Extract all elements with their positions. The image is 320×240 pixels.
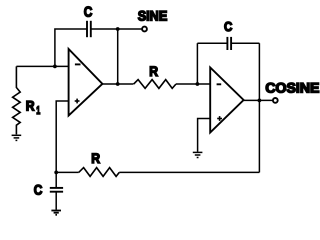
op-amp U2 — [210, 68, 243, 133]
wire U1 output junction up to SINE line — [117, 29, 119, 84]
label R1 — [26, 98, 41, 117]
wire U1 output — [102, 83, 134, 85]
wire U2 non-inverting input to ground — [198, 119, 211, 152]
wire bottom feedback right segment — [119, 171, 259, 173]
capacitor C2 — [227, 37, 231, 50]
wire U1 non-inverting input down to bottom node — [56, 101, 69, 172]
svg-text:1: 1 — [36, 105, 40, 117]
node junction U1 inverting input — [53, 65, 57, 69]
capacitor C1 — [87, 21, 91, 37]
wire U2 output to COSINE terminal — [244, 99, 273, 101]
svg-text:C: C — [34, 183, 43, 198]
node junction SINE top — [116, 27, 120, 31]
wire R2 to U2 inverting input — [176, 83, 210, 85]
wire top-left C feedback right segment to SINE terminal — [91, 28, 142, 30]
resistor R3 bottom feedback — [79, 168, 120, 177]
wire U2 feedback C left vertical — [196, 43, 198, 84]
wire inverting input op-amp U1 — [16, 65, 68, 67]
op-amp U1 — [69, 49, 103, 116]
wire U2 feedback C top right segment — [232, 42, 259, 44]
svg-text:COSINE: COSINE — [265, 81, 319, 96]
terminal SINE — [142, 27, 147, 32]
svg-text:R: R — [26, 98, 35, 113]
node junction bottom — [54, 171, 58, 175]
terminal COSINE — [273, 98, 278, 103]
wire top-left C feedback left segment — [55, 29, 87, 66]
svg-text:R: R — [149, 64, 158, 79]
ground for R1 — [12, 135, 22, 140]
wire right vertical from C2 down to bottom feedback — [258, 43, 260, 172]
svg-text:C: C — [84, 5, 93, 21]
node junction U1 output — [116, 82, 120, 86]
ground for U2 non-inverting input — [193, 152, 203, 157]
wire C3 to ground — [55, 192, 57, 210]
wire bottom node to R3 — [56, 171, 78, 173]
wire U2 feedback C top left segment — [197, 42, 226, 44]
resistor R1 — [13, 66, 21, 134]
svg-text:C: C — [224, 19, 233, 34]
resistor R2 between U1 and U2 — [134, 80, 176, 89]
node junction U2 output — [258, 99, 262, 103]
ground for C3 — [51, 211, 61, 215]
node junction U2 inverting input — [196, 82, 200, 86]
capacitor C3 — [50, 188, 63, 192]
svg-text:R: R — [91, 151, 100, 166]
wire bottom node down to C3 — [55, 172, 57, 187]
svg-text:SINE: SINE — [138, 8, 168, 23]
